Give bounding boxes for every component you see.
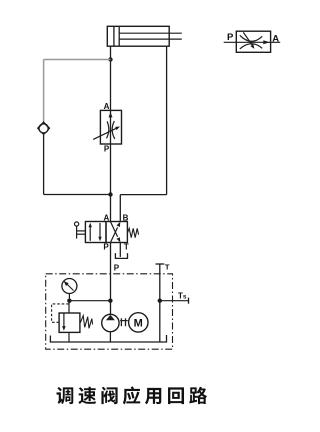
svg-text:T: T xyxy=(165,263,170,272)
node: gauge junction xyxy=(67,299,71,303)
svg-text:A: A xyxy=(104,213,110,222)
svg-text:P: P xyxy=(104,144,110,153)
svg-text:Ts: Ts xyxy=(178,292,187,301)
DV1 left position down arrow xyxy=(99,223,101,238)
flow control valve FC1 box xyxy=(100,110,121,144)
wire: bottom branch horizontal to node xyxy=(44,194,111,196)
wire: gray bypass vertical xyxy=(43,60,45,123)
DV1 position divider xyxy=(105,222,107,243)
FC1 throttle arcs xyxy=(107,121,115,139)
gauge stem xyxy=(68,294,70,301)
wire: B loop horizontal xyxy=(120,194,166,196)
caption 调速阀应用回路 xyxy=(57,387,74,404)
wire: gauge line to P junction xyxy=(69,300,110,302)
directional valve DV1 body xyxy=(85,222,127,243)
shaft coupling xyxy=(120,320,128,322)
FC2 flow arrowhead xyxy=(263,40,270,44)
wire: RV drain to tank xyxy=(68,332,70,342)
wire: cylinder left port down to valve A (vertical main line) xyxy=(110,46,112,221)
wire: B riser to valve xyxy=(119,195,121,222)
DV1 manual actuator knob xyxy=(75,222,79,226)
node: Ts junction xyxy=(158,299,162,303)
pump P1 xyxy=(102,314,119,331)
RV pilot line (dashed) xyxy=(52,304,69,322)
wire: T port drain xyxy=(119,243,121,257)
svg-text:A: A xyxy=(104,102,110,111)
check valve V1 xyxy=(38,122,50,134)
FC1 up arrowhead xyxy=(109,112,113,117)
FC2 throttle arcs xyxy=(240,35,262,49)
cylinder piston rod xyxy=(119,33,182,39)
DV1 left position up arrow xyxy=(89,226,91,241)
wire: check valve to bottom branch xyxy=(43,133,45,194)
tank bottom line with end hooks xyxy=(50,335,166,342)
wire: RV top port xyxy=(68,301,70,313)
svg-text:T: T xyxy=(124,242,129,251)
DV1 crossed arrow P-B xyxy=(111,227,118,242)
power unit enclosure (dash-dot) xyxy=(46,274,173,349)
pump flow triangle xyxy=(106,315,115,321)
DV1 spring xyxy=(127,228,138,237)
wire: gray bypass horizontal xyxy=(44,59,111,61)
cylinder body xyxy=(107,26,169,46)
relief valve RV box xyxy=(59,313,80,332)
svg-text:M: M xyxy=(134,317,143,329)
FC2 flow line P to A xyxy=(224,41,281,43)
svg-text:P: P xyxy=(103,242,109,251)
RV spring xyxy=(80,316,92,329)
RV internal arrow xyxy=(63,313,65,327)
tank symbol at T drain xyxy=(115,253,127,258)
node: junction on A line xyxy=(108,192,112,196)
node: P line junction xyxy=(108,299,112,303)
gauge needle xyxy=(64,282,73,291)
wire: pump suction xyxy=(109,332,111,342)
svg-text:A: A xyxy=(272,34,279,45)
Ts tap end tick xyxy=(188,298,190,304)
FC1 adjust arrow xyxy=(93,128,118,140)
DV1 crossed arrow A-T xyxy=(111,222,118,237)
wire: T return line xyxy=(159,264,161,342)
wire: P line valve to pump xyxy=(110,243,112,315)
node: junction cylinder left port / bypass xyxy=(108,57,112,61)
cylinder piston xyxy=(114,26,119,46)
wire: cylinder right port riser xyxy=(166,46,168,194)
FC2 box xyxy=(236,31,270,52)
svg-text:P: P xyxy=(114,264,120,273)
wire: Ts tap xyxy=(160,300,189,302)
FC2 adjust arrow xyxy=(243,32,252,45)
svg-text:B: B xyxy=(123,213,129,222)
T line top terminal bar xyxy=(156,263,165,265)
motor M1 xyxy=(129,313,148,332)
pressure gauge PG xyxy=(62,279,77,294)
svg-text:P: P xyxy=(227,32,234,43)
